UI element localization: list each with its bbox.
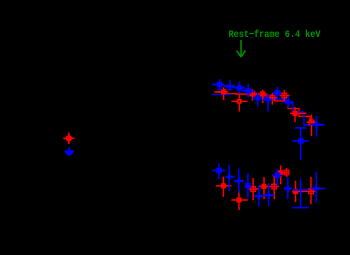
data point blue ratio 5: [254, 185, 264, 207]
data point blue top 1: [213, 79, 224, 90]
data point red top 2: [231, 94, 247, 112]
data point blue ratio 7: [272, 169, 283, 187]
annotation arrow: [237, 40, 246, 57]
extra blue step segment: [213, 94, 232, 96]
data point blue ratio 9: [293, 179, 309, 208]
data point red top 7: [290, 107, 307, 122]
data point red top 8: [307, 115, 317, 137]
data point blue top 3: [235, 82, 245, 94]
data point red top 1: [216, 87, 228, 100]
lone blue upper-limit arrow: [65, 147, 75, 155]
data point red top 4: [257, 90, 267, 103]
data point blue top 2: [225, 80, 234, 90]
data point red ratio 3: [247, 178, 258, 200]
data point red ratio 1: [216, 177, 232, 197]
data point red ratio 6: [276, 166, 286, 185]
model step line red instrument: [214, 92, 317, 122]
data point blue ratio 4: [245, 173, 252, 198]
data point blue ratio 2: [226, 165, 235, 191]
data point blue top 8: [283, 96, 293, 108]
data point red ratio 5: [269, 176, 279, 199]
data point blue top 7: [273, 87, 282, 100]
data point blue top 4: [242, 84, 255, 98]
data point red ratio 9: [299, 177, 316, 204]
data point red ratio 4: [259, 177, 269, 199]
data point blue ratio 6: [263, 183, 274, 206]
data point red ratio 2: [231, 190, 248, 210]
svg-text:Rest−frame 6.4 keV: Rest−frame 6.4 keV: [229, 29, 322, 41]
data point red top 5: [268, 93, 277, 105]
data point blue top 10: [311, 116, 325, 137]
model step line blue instrument: [212, 85, 324, 126]
data point blue ratio 8: [285, 177, 291, 199]
data point blue ratio 3: [234, 169, 244, 193]
data point red ratio 7: [284, 168, 289, 177]
data point blue top 6: [263, 94, 273, 112]
data point blue top 9: [293, 128, 310, 160]
data point blue ratio 10: [311, 172, 325, 203]
data point blue top 5: [253, 93, 263, 107]
data point red top 3: [247, 89, 258, 101]
data point blue ratio 1: [212, 164, 225, 180]
data point red top 6: [280, 90, 290, 102]
lone red data point (low energy): [63, 133, 74, 145]
data point red ratio 8: [292, 181, 299, 202]
